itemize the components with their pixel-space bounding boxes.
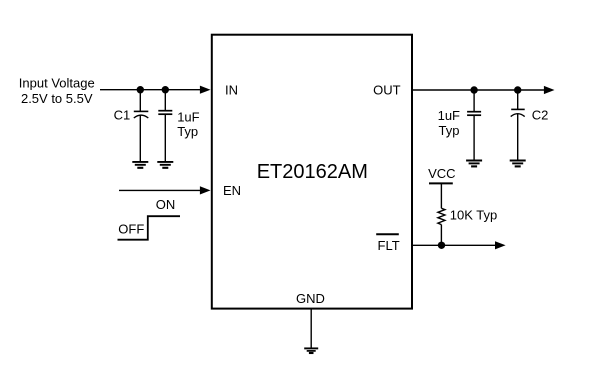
capacitor output 1uF Typ (467, 90, 481, 161)
svg-text:C2: C2 (532, 108, 549, 123)
arrow into IN pin (200, 86, 211, 94)
arrow FLT net (495, 241, 506, 249)
wire GND pin to ground (310, 309, 312, 349)
capacitor C2 (polarized) (511, 90, 525, 161)
svg-text:Input Voltage: Input Voltage (19, 76, 95, 91)
ground under output 1uF cap (466, 161, 482, 167)
svg-text:10K Typ: 10K Typ (450, 208, 497, 223)
junction FLT net at resistor (438, 242, 445, 249)
svg-text:ET20162AM: ET20162AM (257, 161, 368, 183)
junction output net at C2 (514, 86, 521, 93)
junction output net at output 1uF cap (470, 86, 477, 93)
overline of FLT pin label (376, 233, 399, 235)
svg-text:1uF: 1uF (177, 109, 199, 124)
svg-text:OFF: OFF (118, 222, 144, 237)
wire output net from OUT pin (413, 89, 545, 91)
svg-text:C1: C1 (114, 108, 131, 123)
ground under C2 (510, 161, 526, 167)
ground at GND pin (304, 348, 318, 353)
junction input net at input 1uF cap (162, 86, 169, 93)
svg-text:ON: ON (156, 197, 176, 212)
svg-text:FLT: FLT (378, 238, 400, 253)
wire enable net to EN pin (119, 189, 201, 191)
wire VCC to resistor (440, 183, 442, 208)
svg-text:Typ: Typ (177, 124, 198, 139)
capacitor input 1uF Typ (158, 90, 172, 162)
svg-text:Typ: Typ (439, 123, 460, 138)
resistor R 10K pull-up (438, 208, 445, 224)
wire FLT net from FLT pin (413, 244, 496, 246)
IC U1 ET20162AM body (212, 35, 412, 309)
svg-text:EN: EN (223, 183, 241, 198)
enable step waveform (118, 216, 181, 240)
wire resistor to FLT net (440, 225, 442, 246)
ground under C1 (132, 162, 148, 168)
power symbol VCC (428, 166, 455, 183)
svg-text:GND: GND (296, 291, 325, 306)
svg-text:OUT: OUT (373, 83, 401, 98)
svg-text:IN: IN (225, 83, 238, 98)
arrow into EN pin (200, 186, 211, 194)
capacitor C1 (polarized) (134, 90, 149, 162)
junction input net at C1 (137, 86, 144, 93)
svg-text:VCC: VCC (428, 166, 455, 181)
svg-text:1uF: 1uF (438, 108, 460, 123)
wire input net to IN pin (100, 89, 201, 91)
arrow output net (544, 86, 555, 94)
ground under input 1uF cap (157, 162, 173, 168)
svg-text:2.5V to 5.5V: 2.5V to 5.5V (21, 91, 93, 106)
